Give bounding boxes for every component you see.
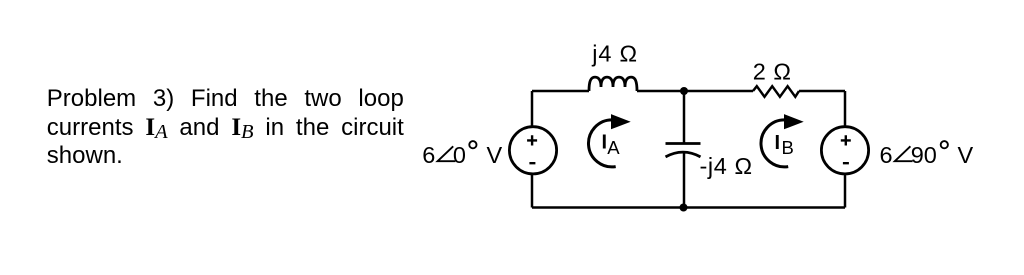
svg-text:6: 6 — [880, 142, 893, 168]
svg-text:j4 Ω: j4 Ω — [591, 41, 638, 67]
svg-text:V: V — [958, 142, 974, 168]
svg-text:6: 6 — [422, 142, 435, 168]
svg-text:2 Ω: 2 Ω — [753, 59, 792, 85]
svg-text:0: 0 — [453, 142, 466, 168]
svg-text:I: I — [602, 131, 608, 153]
svg-text:-j4 Ω: -j4 Ω — [700, 153, 753, 179]
svg-text:I: I — [775, 132, 781, 154]
svg-text:B: B — [782, 137, 794, 158]
svg-text:V: V — [487, 142, 503, 168]
svg-text:90: 90 — [911, 142, 937, 168]
svg-text:A: A — [607, 137, 620, 158]
